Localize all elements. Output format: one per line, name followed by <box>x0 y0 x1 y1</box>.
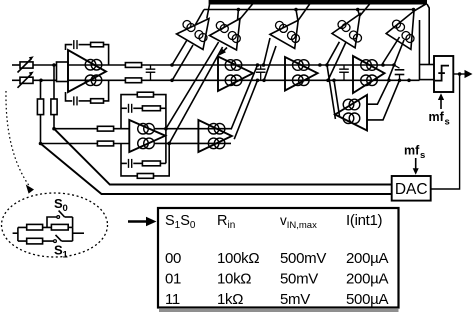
wire int2 outer top loop <box>121 95 166 164</box>
resistor Ra <box>27 224 43 230</box>
wire from top bus bar elbow <box>427 4 429 65</box>
wire int2 output top <box>155 128 231 130</box>
node D <box>39 142 43 146</box>
wire right stub <box>73 232 84 234</box>
wire quantizer output <box>453 73 466 75</box>
wire DAC feedback lower diagonal <box>41 144 392 195</box>
wire int2 inner top loop <box>121 107 127 109</box>
table shadow strip <box>159 309 399 312</box>
wire left stub <box>13 211 84 244</box>
wire U8 output to bottom line <box>327 65 335 119</box>
svg-text:DAC: DAC <box>395 181 428 198</box>
wire input line 2 <box>12 79 20 81</box>
node V <box>412 8 416 12</box>
svg-text:200µA: 200µA <box>346 250 388 267</box>
wire quantizer input bottom <box>420 79 435 81</box>
wire int2 input bottom <box>41 143 130 145</box>
wire int2 outer bottom loop <box>121 143 169 176</box>
resistor R12 (int2 fb) <box>142 106 160 111</box>
gm circles T1 b <box>195 31 207 42</box>
gm circles T1 a <box>183 21 195 32</box>
resistor R6 (int2 input bottom) <box>97 141 113 146</box>
wire int2 output bottom <box>155 142 231 144</box>
output arrowhead <box>465 70 473 78</box>
op-amp U7 <box>198 120 231 152</box>
resistor Rc <box>27 238 43 244</box>
table row 2 <box>165 271 388 288</box>
wire T4 out diag 2 <box>328 42 346 80</box>
dotted ellipse (Rin detail) <box>2 193 108 257</box>
wire U8 output diagonal to top line <box>334 80 340 116</box>
wire right vertical <box>72 227 74 241</box>
wire U1 bottom feedback <box>66 92 73 101</box>
gm cell circles U1 top <box>85 59 102 70</box>
svg-text:100kΩ: 100kΩ <box>217 250 259 267</box>
node Q <box>407 79 411 83</box>
wire T5 out diag 2 <box>388 40 404 80</box>
svg-text:50mV: 50mV <box>280 271 318 288</box>
wire feedback to DAC <box>431 74 460 189</box>
input summing box U1a <box>57 62 69 82</box>
wire left vertical <box>17 227 19 241</box>
wire <box>68 226 72 228</box>
table frame <box>158 208 399 308</box>
switch S1 blade <box>54 235 73 243</box>
svg-text:s: s <box>420 150 425 161</box>
wire DAC feedback upper diagonal <box>54 129 392 185</box>
node S <box>167 142 171 146</box>
gm cell circles U3 bottom <box>293 75 310 86</box>
capacitor C7 <box>129 104 132 113</box>
wire <box>79 44 91 46</box>
capacitor C2 <box>74 96 77 105</box>
wire T2 input <box>237 10 240 21</box>
op-amp U3 <box>285 57 318 91</box>
wire top rail <box>18 226 52 228</box>
wire quantizer input corner <box>419 20 421 80</box>
wire main row bottom line <box>68 79 420 81</box>
node M <box>381 63 385 67</box>
svg-text:200µA: 200µA <box>346 271 388 288</box>
gm cell circles U6 bottom <box>138 138 155 149</box>
gm circles T5 b <box>402 32 414 43</box>
gm cell circles U8 top <box>343 99 360 110</box>
node I <box>318 63 322 67</box>
capacitor C4 bridge <box>256 65 266 80</box>
resistor R13 (int2 fb) <box>142 161 160 166</box>
table header S1S0 <box>165 212 383 231</box>
wire input line 1 <box>12 64 20 66</box>
gm circles T5 a <box>393 20 405 31</box>
node C <box>52 127 56 131</box>
resistor R14 (int2 fb) <box>137 174 153 179</box>
wire T3 input <box>298 4 310 20</box>
gm circles T4 a <box>338 21 350 32</box>
DAC cell T5 <box>386 11 414 49</box>
wire <box>104 45 109 65</box>
wire <box>133 162 142 164</box>
capacitor C6 bridge <box>394 65 404 80</box>
dotted zoom arrow <box>6 91 30 187</box>
resistor R7 (int1 fb top) <box>91 42 104 46</box>
gm circles T2 a <box>216 22 228 33</box>
wire U8 input 1 <box>367 80 389 104</box>
gm cell circles U6 top <box>138 123 155 134</box>
arrow to table <box>128 217 157 226</box>
top feedback bus bar (thick) <box>209 0 427 5</box>
capacitor C3 bridge <box>146 65 156 80</box>
mfs clock arrow (quantizer) <box>438 93 444 109</box>
wire T4 input <box>358 10 360 17</box>
wire T2 out diag 1 <box>166 42 219 129</box>
node T <box>237 8 241 12</box>
quantizer step symbol <box>435 66 449 81</box>
variable resistor R2 (input, bottom) <box>18 72 34 88</box>
node E <box>170 63 174 67</box>
wire T4 out diag 1 <box>327 42 340 65</box>
gm cell circles U1 bottom <box>85 75 102 86</box>
wire <box>104 80 109 101</box>
DAC cell T4 <box>332 14 360 48</box>
gm cell circles U2 top <box>225 60 242 71</box>
switch S0 branch <box>47 217 57 227</box>
svg-text:mf: mf <box>429 110 445 124</box>
DAC cell T1 <box>177 19 210 50</box>
node input B <box>39 79 43 83</box>
op-amp U1 integrator 1 <box>68 50 106 92</box>
resistor R5 (int2 input top) <box>97 126 113 131</box>
wire T1 out diag 1 <box>172 40 187 65</box>
resistor R11 (int2 fb) <box>137 92 153 97</box>
wire U8 input 2 <box>367 80 400 120</box>
capacitor C8 <box>129 159 132 168</box>
gm circles T3 a <box>276 21 288 32</box>
wire <box>133 107 142 109</box>
wire int2 inner bottom loop <box>121 162 127 164</box>
node N <box>392 63 396 67</box>
node W <box>458 72 462 76</box>
node input A <box>52 63 56 67</box>
wire T1 input <box>196 10 205 25</box>
label mfs quantizer <box>429 110 450 128</box>
node T3bus <box>294 8 298 12</box>
wire U1 top feedback <box>66 45 73 50</box>
svg-text:500µA: 500µA <box>346 291 388 308</box>
wire arrow into U2 input <box>219 48 227 56</box>
svg-text:00: 00 <box>165 250 181 267</box>
wire T4 input 2 <box>360 2 372 16</box>
wire T5 out diag 1 <box>382 37 400 65</box>
wire main row top line <box>68 64 394 66</box>
node H <box>256 79 260 83</box>
gm circles T4 b <box>350 31 362 42</box>
wire T5 input <box>414 4 427 12</box>
wire T2 input 2 <box>239 4 253 21</box>
table row 3 <box>165 291 388 308</box>
wire T2 out diag 2 <box>169 47 222 143</box>
wire bottom rail <box>18 240 54 242</box>
node P <box>398 79 402 83</box>
wire <box>53 115 55 129</box>
gm cell circles U4 top <box>361 60 378 71</box>
resistor R8 (int1 fb bottom) <box>91 99 104 103</box>
wire T1 input 2 <box>207 5 210 19</box>
wire to vertical resistor R4 <box>40 80 42 99</box>
svg-text:10kΩ: 10kΩ <box>217 271 251 288</box>
node L <box>332 79 336 83</box>
op-amp U8 (feedback, points left) <box>335 95 367 131</box>
wire to vertical resistor R3 <box>53 65 55 99</box>
op-amp U2 <box>218 57 253 92</box>
DAC cell T2 <box>210 19 241 51</box>
wire <box>40 115 42 144</box>
svg-text:1kΩ: 1kΩ <box>217 291 243 308</box>
label S1 <box>54 243 69 261</box>
svg-text:0: 0 <box>63 203 68 214</box>
wire <box>160 107 166 109</box>
svg-text:1: 1 <box>63 250 69 261</box>
gm cell circles U8 bottom <box>343 113 360 124</box>
wire T3 input 2 <box>296 10 298 21</box>
op-amp U6 integrator 2 <box>129 120 165 152</box>
mfs clock arrow (DAC) <box>413 158 419 175</box>
wire U7 output diagonal 1 <box>231 65 258 130</box>
wire T1 out diag 2 <box>172 45 193 80</box>
switch S0 blade <box>57 211 73 228</box>
table row 1 <box>165 250 388 267</box>
svg-text:5mV: 5mV <box>280 291 310 308</box>
node R <box>164 127 168 131</box>
op-amp U4 <box>353 56 385 93</box>
node K <box>326 79 330 83</box>
gm cell circles U3 top <box>293 60 310 71</box>
capacitor C1 <box>74 40 77 49</box>
node J <box>325 63 329 67</box>
svg-text:500mV: 500mV <box>280 250 326 267</box>
wire T3 out diag 2 <box>264 46 276 80</box>
variable resistor R1 (input, top) <box>18 56 34 72</box>
gm cell circles U2 bottom <box>225 75 242 86</box>
svg-text:I(int1): I(int1) <box>346 212 383 229</box>
svg-text:11: 11 <box>165 291 180 308</box>
node O <box>387 79 391 83</box>
top feedback bus (thin) <box>204 9 414 11</box>
gm cell circles U4 bottom <box>361 75 378 86</box>
gm cell circles U7 bottom <box>208 138 225 149</box>
wire <box>160 162 166 164</box>
quantizer U5 box <box>434 56 453 92</box>
label mfs DAC <box>404 144 425 162</box>
wire T3 out diag 1 <box>264 38 271 65</box>
wire int2 input top <box>54 128 129 130</box>
node U <box>356 8 360 12</box>
wire quantizer input top <box>420 64 435 66</box>
node F <box>170 79 174 83</box>
label S0 <box>54 196 68 214</box>
wire <box>79 100 91 102</box>
svg-text:s: s <box>445 117 450 128</box>
capacitor C5 bridge <box>339 65 349 80</box>
resistor R9 (main top) <box>125 63 141 68</box>
resistor Rb <box>51 224 68 230</box>
node G <box>256 63 260 67</box>
resistor R3 (DAC feedback, right) <box>51 99 57 115</box>
gm cell circles U7 top <box>208 123 225 134</box>
DAC box <box>392 176 431 201</box>
svg-text:01: 01 <box>165 271 181 288</box>
resistor R4 (DAC feedback, left) <box>37 99 43 115</box>
gm circles T3 b <box>288 31 300 42</box>
svg-text:mf: mf <box>404 144 420 158</box>
wire U7 output diagonal 2 <box>234 80 257 139</box>
resistor R10 (main bottom) <box>125 78 141 83</box>
gm circles T2 b <box>228 32 240 43</box>
DAC cell T3 <box>270 20 298 48</box>
